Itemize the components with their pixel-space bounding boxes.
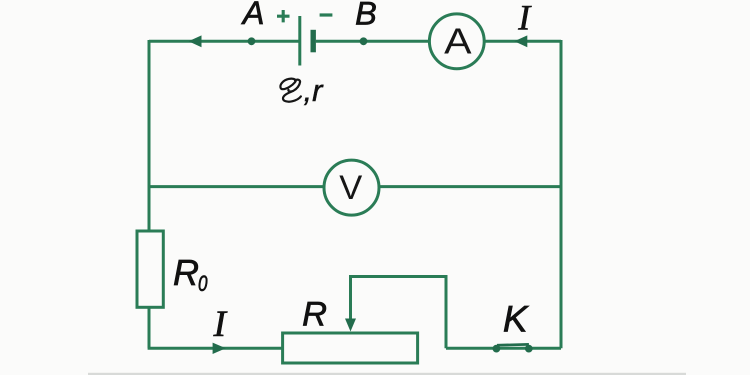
svg-text:R: R	[302, 295, 327, 333]
svg-text:B: B	[355, 0, 377, 31]
resistor R0 body	[137, 231, 163, 307]
svg-text:R: R	[173, 252, 199, 293]
wire bottom-right segment	[446, 347, 561, 350]
battery negative plate (short thick)	[311, 30, 316, 53]
battery minus sign	[320, 13, 333, 16]
switch K blade	[497, 343, 529, 347]
wire top-right segment	[316, 40, 561, 43]
svg-text:A: A	[241, 0, 265, 31]
battery positive plate (long)	[298, 16, 301, 66]
rheostat R body	[283, 333, 418, 363]
switch K left contact dot	[493, 345, 501, 353]
wire left lower vertical	[148, 307, 151, 349]
bottom photo shadow	[88, 373, 686, 375]
current arrow bottom (pointing right)	[213, 343, 226, 354]
wire middle horizontal	[149, 185, 561, 188]
wire right vertical	[560, 40, 563, 348]
wire top-left segment	[149, 40, 299, 43]
wire left vertical	[148, 40, 151, 232]
node B dot	[360, 37, 368, 45]
current arrow top-right (pointing left)	[514, 35, 527, 47]
voltmeter U2 circle	[324, 160, 379, 215]
svg-text:A: A	[444, 20, 471, 61]
node A dot	[248, 37, 256, 45]
ammeter U1 circle	[429, 14, 484, 69]
svg-text:0: 0	[198, 271, 208, 296]
svg-text:K: K	[503, 298, 530, 339]
switch K right contact dot	[525, 345, 533, 353]
wire bottom-left segment	[148, 347, 283, 350]
battery EMF label script-E	[280, 79, 300, 102]
svg-text:V: V	[339, 169, 362, 207]
svg-text:,r: ,r	[304, 73, 325, 108]
rheostat slider arrowhead (pointing down)	[345, 319, 356, 332]
current arrow top-left (pointing left)	[189, 35, 202, 47]
battery plus sign	[277, 10, 290, 22]
svg-text:I: I	[213, 304, 228, 345]
rheostat slider wire	[351, 277, 447, 349]
svg-text:I: I	[517, 0, 532, 38]
